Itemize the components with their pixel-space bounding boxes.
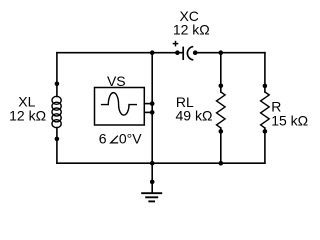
node XL top bbox=[55, 82, 60, 87]
svg-text:49 kΩ: 49 kΩ bbox=[176, 107, 213, 123]
wire top-right horizontal bbox=[195, 52, 265, 54]
node RL top junction bbox=[219, 50, 224, 55]
ground symbol bbox=[141, 193, 162, 201]
capacitor XC curved plate bbox=[187, 47, 193, 60]
wire R branch lower bbox=[264, 128, 266, 163]
node ground stub bbox=[150, 180, 155, 185]
node VS minus bbox=[150, 110, 155, 115]
VS source box bbox=[95, 88, 145, 126]
node XL bottom bbox=[55, 137, 60, 142]
node VS plus bbox=[150, 101, 155, 106]
wire middle branch bbox=[151, 53, 153, 164]
node R res top bbox=[263, 84, 268, 89]
node RL bottom junction bbox=[219, 161, 224, 166]
svg-text:15 kΩ: 15 kΩ bbox=[271, 113, 308, 129]
svg-text:VS: VS bbox=[107, 73, 126, 89]
node RL res top bbox=[219, 84, 224, 89]
capacitor XC left plate bbox=[182, 47, 184, 60]
svg-text:0°V: 0°V bbox=[119, 130, 142, 146]
capacitor plus sign bbox=[173, 41, 179, 47]
wire left branch upper bbox=[56, 53, 58, 97]
wire R branch upper bbox=[264, 53, 266, 92]
wire bottom horizontal bbox=[57, 162, 265, 164]
node ground junction bbox=[150, 161, 155, 166]
node middle-top bbox=[150, 50, 155, 55]
node RL res bottom bbox=[219, 129, 224, 134]
angle symbol bbox=[111, 136, 119, 143]
svg-text:12 kΩ: 12 kΩ bbox=[173, 21, 210, 37]
VS sine wave bbox=[101, 93, 137, 115]
wire RL branch upper bbox=[220, 53, 222, 92]
wire top-left horizontal bbox=[57, 52, 183, 54]
wire RL branch lower bbox=[220, 128, 222, 163]
resistor RL zigzag bbox=[217, 92, 226, 128]
inductor XL coil bbox=[52, 96, 61, 127]
svg-text:6: 6 bbox=[99, 130, 107, 146]
wire VS terminal stub upper bbox=[144, 103, 152, 105]
node cap right bbox=[193, 50, 198, 55]
node R res bottom bbox=[263, 129, 268, 134]
wire VS terminal stub lower bbox=[144, 111, 152, 113]
resistor R zigzag bbox=[261, 92, 270, 128]
wire left branch lower bbox=[56, 128, 58, 164]
svg-text:12 kΩ: 12 kΩ bbox=[9, 107, 46, 123]
node cap left bbox=[175, 50, 180, 55]
wire ground stub bbox=[151, 163, 153, 192]
